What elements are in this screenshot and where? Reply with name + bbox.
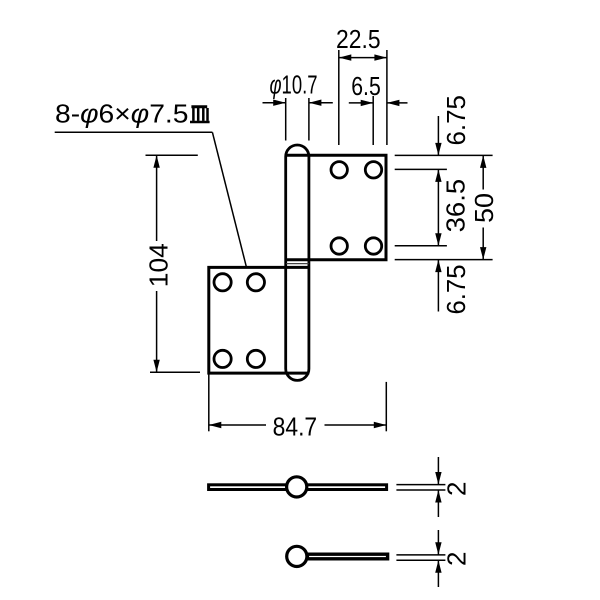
svg-text:6.5: 6.5 <box>351 71 381 101</box>
dimension phi10.7 <box>263 98 333 141</box>
svg-text:50: 50 <box>469 193 499 223</box>
section view 1: open hinge plate <box>209 485 387 490</box>
svg-text:22.5: 22.5 <box>336 24 381 54</box>
dimension 36.5 <box>437 169 439 245</box>
lower leaf hole 2 <box>247 274 264 291</box>
dimension 6.75 bottom <box>437 260 439 312</box>
upper leaf plate <box>286 155 386 260</box>
countersunk symbol (sara) <box>190 107 210 122</box>
dimension 6.5 <box>349 96 408 145</box>
svg-text:φ10.7: φ10.7 <box>270 69 318 99</box>
svg-text:8-φ6×φ7.5: 8-φ6×φ7.5 <box>55 99 189 129</box>
upper leaf hole 4 <box>365 238 381 254</box>
svg-text:84.7: 84.7 <box>273 411 318 441</box>
right side extension lines <box>395 155 493 259</box>
dimension 6.75 top <box>437 116 439 155</box>
section view 2: folded hinge plate <box>307 554 387 559</box>
dimension 84.7 <box>209 375 386 432</box>
dimension 22.5 <box>339 50 387 145</box>
knuckle junction line <box>286 263 308 265</box>
lower leaf hole 3 <box>214 350 231 367</box>
dimension 2 (top section) <box>396 457 445 517</box>
lower leaf plate <box>209 267 309 373</box>
svg-text:104: 104 <box>143 243 173 287</box>
upper leaf hole 2 <box>365 162 381 178</box>
upper leaf hole 3 <box>331 238 347 254</box>
leader underline <box>55 131 213 133</box>
lower leaf hole 4 <box>247 350 264 367</box>
barrel (hinge pin knuckle) <box>286 145 309 380</box>
section view 1: pin circle <box>287 477 307 497</box>
dimension 2 (bottom section) <box>396 530 445 587</box>
svg-text:36.5: 36.5 <box>441 179 471 233</box>
lower leaf hole 1 <box>214 274 231 291</box>
svg-text:2: 2 <box>442 482 472 496</box>
svg-text:2: 2 <box>442 552 472 566</box>
dimension 104 <box>146 155 201 372</box>
section view 2: pin circle <box>287 546 307 566</box>
svg-text:6.75: 6.75 <box>441 265 471 315</box>
svg-text:6.75: 6.75 <box>441 95 471 146</box>
dimension 50 <box>482 155 484 189</box>
upper leaf hole 1 <box>331 162 347 178</box>
leader line <box>212 132 246 267</box>
